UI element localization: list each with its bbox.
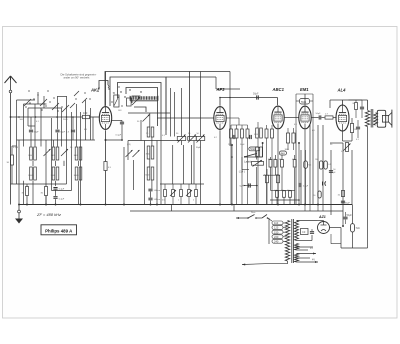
- svg-text:50: 50: [333, 169, 335, 171]
- IFT1 coil pair mid: [147, 146, 150, 159]
- IFT1 coil pair bottom: [147, 167, 150, 180]
- svg-text:1MΩ: 1MΩ: [285, 149, 290, 151]
- svg-text:0.5: 0.5: [292, 159, 295, 161]
- capacitor AL4 cathode: [356, 126, 360, 128]
- trimmer T2: [61, 149, 68, 156]
- svg-text:M5: M5: [309, 165, 312, 167]
- tap 150V: [272, 230, 283, 234]
- choke loop left: [331, 243, 341, 245]
- capacitor 0.5uF: [298, 183, 300, 187]
- svg-text:240: 240: [274, 240, 279, 244]
- IFT1 wires: [149, 113, 151, 127]
- svg-text:2: 2: [193, 200, 194, 202]
- svg-text:5µF: 5µF: [240, 186, 244, 188]
- IFT2 coil boxes: [256, 128, 259, 138]
- svg-text:30000: 30000: [28, 175, 33, 177]
- wire AF3 top: [219, 98, 221, 106]
- coil column x78.5: [75, 147, 78, 160]
- AF3 cathode resistors: [230, 129, 233, 138]
- svg-text:50pF: 50pF: [240, 144, 245, 146]
- svg-text:A5: A5: [279, 158, 281, 161]
- tube AZ1: [318, 222, 330, 234]
- resistor AK2 cathode: [104, 162, 107, 171]
- output transformer core: [370, 109, 372, 128]
- switch marks near AK2: [74, 91, 79, 96]
- svg-text:3000: 3000: [254, 134, 258, 136]
- osc coil 2: [127, 98, 132, 106]
- wire AL4 plate top: [342, 100, 344, 105]
- tube ABC1: [272, 106, 284, 129]
- wire verticals right mid: [317, 125, 319, 205]
- wire right bus down from speaker circuit: [352, 204, 355, 206]
- svg-text:0.1: 0.1: [328, 164, 331, 166]
- IFT1 caps: [148, 188, 152, 190]
- svg-text:4V: 4V: [312, 259, 315, 262]
- wire mains left: [236, 217, 243, 219]
- speaker: [377, 110, 385, 127]
- oscillator padder dots: [120, 91, 121, 92]
- power transformer HT secondary: [295, 221, 299, 241]
- wire EM1 bottom: [304, 130, 306, 205]
- power transformer heater secondary 2: [295, 254, 299, 263]
- wire left section verticals: [16, 100, 18, 184]
- wire AZ1 out loop: [330, 227, 342, 229]
- switch wave-change contacts: [25, 106, 26, 107]
- AL4 cathode components: [342, 131, 344, 141]
- svg-text:50: 50: [313, 195, 315, 197]
- svg-text:ander um 90° verdreht: ander um 90° verdreht: [64, 76, 90, 80]
- capacitor C2: [55, 129, 59, 131]
- svg-text:EM1: EM1: [300, 87, 309, 92]
- wire antenna down: [10, 93, 12, 205]
- coil L5 small: [26, 187, 29, 196]
- trimmer T1: [44, 149, 51, 156]
- shield box 2: [110, 77, 166, 135]
- wire heater leads: [297, 246, 314, 248]
- resistor row3: [276, 191, 279, 198]
- coil L6 small: [45, 187, 48, 196]
- AVC resistor 2: [172, 190, 175, 197]
- capacitor C16: [311, 117, 319, 119]
- svg-text:3000: 3000: [74, 155, 78, 157]
- oscillator coil hook: [132, 96, 140, 103]
- svg-text:C3: C3: [302, 230, 306, 234]
- resistor R17: [318, 191, 321, 198]
- svg-text:AZ1: AZ1: [318, 215, 326, 219]
- svg-text:30000: 30000: [145, 175, 150, 177]
- wire ABC1 top: [277, 98, 279, 106]
- resistor 0.5: [293, 160, 296, 168]
- svg-text:150: 150: [274, 230, 279, 234]
- svg-text:0.1µF: 0.1µF: [59, 188, 65, 190]
- resistor 1M: [269, 160, 272, 168]
- svg-text:0.1µF: 0.1µF: [13, 147, 19, 149]
- wire AK2 top: [105, 72, 107, 106]
- potentiometer P2: [188, 137, 197, 141]
- capacitor C1: [29, 129, 33, 131]
- hook above AK2: [99, 81, 108, 89]
- svg-text:50pF: 50pF: [60, 132, 65, 134]
- svg-text:220: 220: [274, 235, 279, 239]
- svg-text:4MΩ: 4MΩ: [280, 153, 285, 155]
- svg-text:AL4: AL4: [337, 88, 347, 93]
- power transformer core: [291, 219, 293, 263]
- svg-text:ZF = 488 kHz: ZF = 488 kHz: [36, 212, 61, 217]
- wire bus verticals mid: [165, 77, 167, 130]
- tube AK2: [99, 107, 111, 130]
- tube EM1: [299, 106, 311, 129]
- svg-text:1000: 1000: [51, 155, 55, 157]
- capacitor C4: [53, 187, 57, 189]
- svg-text:7kΩ: 7kΩ: [356, 228, 360, 230]
- coil column x33: [30, 147, 33, 160]
- resistor 10 on HT line: [341, 191, 344, 197]
- wire top AF3 right: [216, 88, 240, 90]
- wire AL4 top bus: [330, 99, 343, 101]
- svg-text:30000: 30000: [74, 175, 79, 177]
- resistor row2: [266, 175, 269, 183]
- tube AL4: [336, 105, 349, 131]
- AVC resistor 5: [195, 190, 198, 197]
- tap 125V: [272, 226, 283, 230]
- resistor grid AL4: [346, 143, 349, 152]
- wire top long AF3 feed: [166, 76, 216, 78]
- electrolytic cap: [322, 182, 324, 186]
- wire HT bus: [330, 142, 343, 144]
- wire AZ1 top: [317, 220, 324, 222]
- power transformer primary winding: [285, 221, 289, 262]
- AVC network row: [160, 183, 204, 185]
- svg-text:( 14 ): ( 14 ): [239, 170, 245, 174]
- capacitor C5: [53, 196, 57, 198]
- wire left horizontals: [58, 96, 67, 98]
- coil column x55.5: [52, 147, 55, 160]
- tap 220V: [272, 235, 283, 239]
- label Philips 489 A: [41, 225, 77, 235]
- resistor cluster 2: [265, 129, 268, 138]
- svg-text:3000: 3000: [51, 175, 55, 177]
- resistor 7k field coil: [351, 224, 355, 232]
- svg-text:Netz: Netz: [251, 211, 256, 214]
- osc comb coil: [130, 96, 158, 99]
- svg-text:3000: 3000: [28, 155, 32, 157]
- resistor R16: [319, 161, 322, 169]
- coil L7 left: [11, 155, 14, 165]
- wires volume area verticals: [231, 145, 233, 205]
- wire IFT1 to AF3 grid: [157, 117, 214, 119]
- ground: [18, 210, 21, 213]
- capacitor 40uF: [341, 200, 345, 202]
- potentiometer P3: [196, 137, 205, 141]
- svg-text:50kΩ: 50kΩ: [250, 149, 256, 151]
- mains switch: [243, 217, 249, 219]
- wire HT secondary top to AZ1: [297, 220, 318, 222]
- capacitor smoothing: [310, 231, 314, 233]
- wires volume area horizontals: [244, 156, 263, 158]
- junction dots: [105, 204, 107, 206]
- svg-text:5MΩ: 5MΩ: [301, 101, 306, 104]
- wire ground bus main: [19, 204, 352, 206]
- svg-text:50pF: 50pF: [316, 113, 322, 115]
- osc coil with core: [114, 95, 119, 107]
- capacitor 50uF AZ1: [343, 216, 347, 218]
- capacitor coupling 50pF: [256, 95, 258, 99]
- output transformer primary: [365, 111, 369, 127]
- svg-text:40µF: 40µF: [345, 203, 351, 205]
- resistor C3 box: [301, 229, 309, 235]
- capacitor C17 50pF: [329, 170, 333, 172]
- svg-text:0.5: 0.5: [162, 200, 165, 202]
- resistor AL4 cathode: [350, 124, 353, 133]
- svg-text:50pF: 50pF: [253, 93, 259, 96]
- AVC resistor 4: [188, 190, 191, 197]
- svg-text:Philips 489 A: Philips 489 A: [45, 228, 73, 233]
- IFT1 trimmers: [126, 150, 133, 157]
- capacitor C6: [71, 129, 75, 131]
- resistor M5: [304, 161, 308, 168]
- resistor 4M box: [279, 151, 286, 155]
- svg-text:Lautst.: Lautst.: [244, 160, 252, 163]
- capacitor 50uF coupling: [248, 183, 250, 187]
- svg-text:1M: 1M: [315, 159, 318, 161]
- tap 110V: [272, 221, 283, 225]
- svg-text:(13): (13): [127, 144, 131, 146]
- shield box outer: [105, 72, 190, 141]
- svg-text:4V: 4V: [310, 247, 313, 250]
- power transformer heater secondary 1: [295, 244, 299, 251]
- output transformer secondary: [374, 113, 378, 125]
- resistor 0.1: [274, 160, 277, 168]
- AVC resistor 3: [180, 190, 183, 197]
- wire primary bottom: [287, 261, 289, 264]
- AVC resistor 1: [164, 190, 167, 197]
- svg-text:AK2: AK2: [90, 88, 100, 93]
- svg-text:0.1µF: 0.1µF: [59, 199, 65, 201]
- ABC1 resistors below: [286, 133, 289, 143]
- potentiometer P1: [177, 137, 186, 141]
- EM1 top box resistor: [300, 99, 310, 105]
- wire AK2 bottom: [105, 130, 107, 161]
- tap 240V: [272, 239, 283, 243]
- resistor A5: [281, 160, 284, 168]
- antenna: [10, 78, 12, 90]
- small parts above AL4: [355, 103, 358, 110]
- resistor 50k box: [249, 147, 260, 151]
- resistor antenna series: [83, 115, 90, 118]
- wire HT secondary bottom: [297, 240, 313, 242]
- resistor R16b: [324, 161, 327, 169]
- svg-text:50µF: 50µF: [347, 215, 353, 217]
- resistor R15: [322, 117, 325, 119]
- capacitor AK2 coupling: [120, 121, 124, 123]
- wire transformer bottom feedback: [367, 127, 369, 249]
- svg-text:0.1µF: 0.1µF: [116, 135, 122, 137]
- wire antenna to input: [11, 116, 83, 118]
- wire ground bus lower: [130, 210, 343, 212]
- wire AF3 to ABC1: [220, 97, 278, 99]
- switch volume: [245, 154, 257, 157]
- svg-text:1: 1: [178, 200, 179, 202]
- shield box 4: [126, 88, 158, 127]
- wire right drops: [351, 205, 353, 224]
- svg-text:0.1: 0.1: [273, 159, 276, 161]
- junction dots input line: [18, 116, 20, 118]
- IFT1 coil pair top: [147, 127, 150, 137]
- svg-text:AF3: AF3: [216, 87, 226, 92]
- svg-text:ABC1: ABC1: [272, 87, 285, 92]
- capacitor in AF3 cluster: [232, 135, 234, 139]
- svg-text:0.5µF: 0.5µF: [303, 185, 309, 187]
- tube AF3: [214, 107, 226, 130]
- svg-text:50pF: 50pF: [34, 132, 39, 134]
- svg-text:110: 110: [274, 221, 279, 225]
- shield box 3: [118, 83, 162, 131]
- trimmer osc: [132, 97, 140, 105]
- svg-text:125: 125: [274, 226, 279, 230]
